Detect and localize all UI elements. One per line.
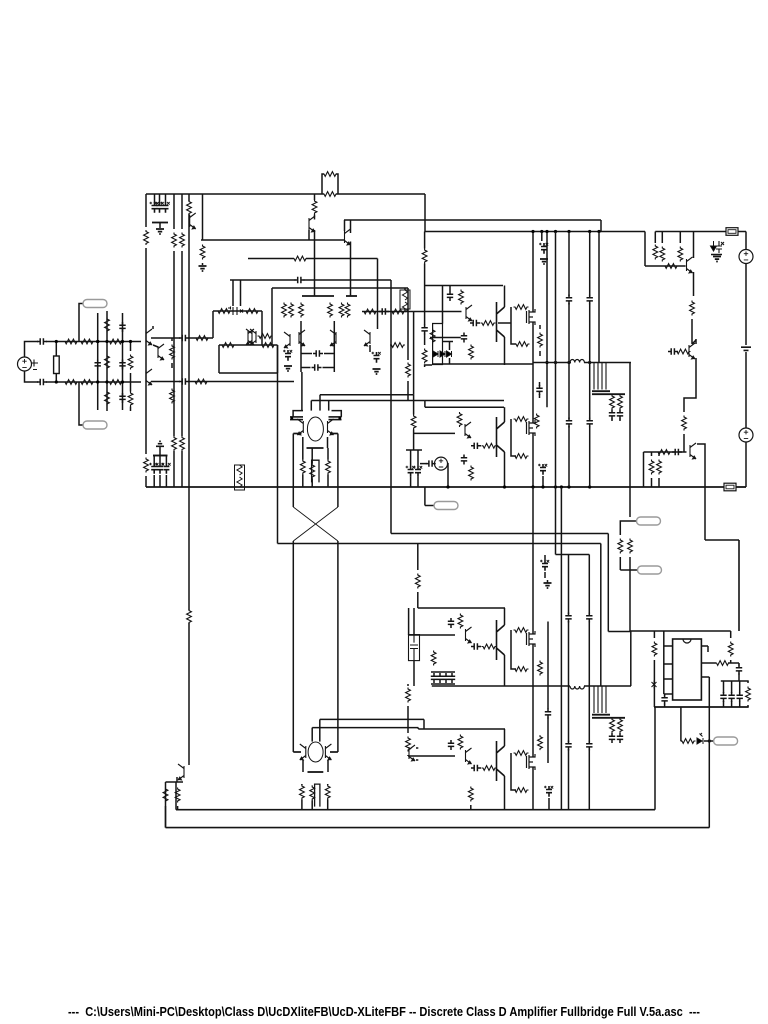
resistor R68 (657, 460, 662, 475)
resistor R80 (482, 766, 497, 771)
mosfet M2 (527, 420, 536, 436)
wire M3 drain (532, 622, 534, 635)
capacitor C6 (95, 360, 101, 370)
capacitor C25 (536, 385, 542, 395)
wire x408 bottom (407, 755, 409, 756)
resistor R58 zobel (618, 395, 623, 410)
resistor R69 (618, 539, 623, 554)
wire x548 rail (547, 622, 549, 710)
resistor R96 (310, 786, 315, 801)
resistor R47 (469, 345, 474, 360)
wire zobel bar 2 (592, 717, 625, 719)
transistor Q20 (690, 443, 696, 459)
resistor R74 gate (514, 628, 529, 633)
net flag OUT1 (630, 520, 636, 522)
transistor Q5 mirror (248, 329, 254, 345)
resistor R24 (245, 309, 260, 314)
resistor R102 in box (430, 329, 435, 344)
wire feed2 y635 (409, 634, 455, 636)
wire D5 stubs (449, 342, 451, 351)
capacitor C23 (470, 320, 480, 326)
transistor Q4 cascode (158, 344, 164, 360)
wire to flag (704, 740, 714, 742)
rail x555 lower half (555, 487, 557, 555)
ground G6 (713, 257, 721, 262)
rail x569 upper (568, 232, 570, 297)
wire cap drop x541 (541, 232, 543, 242)
resistor R93 (163, 788, 168, 803)
wire left rail x146 (145, 194, 147, 227)
wire x692 mid (691, 319, 693, 344)
resistor R67 (649, 460, 654, 475)
wire caps to bus (153, 475, 155, 487)
resistor R89 (715, 661, 730, 666)
wire jog up x213 (212, 311, 214, 338)
resistor R83 (468, 787, 473, 802)
wire to termination (46, 341, 61, 343)
IC rail top y631 (630, 630, 731, 632)
capacitor C61 polarized (408, 466, 414, 477)
transistor Q29 on y240 (345, 229, 351, 245)
capacitor C13 (295, 277, 305, 283)
wire right rail mid (745, 263, 747, 345)
resistor R35 (390, 343, 405, 348)
wire drop x442 (442, 286, 444, 324)
resistor R9 (200, 245, 205, 260)
capacitor C65 polarized (151, 463, 157, 474)
svg-text:--- C:\Users\Mini-PC\Desktop\: --- C:\Users\Mini-PC\Desktop\Class D\UcD… (68, 1004, 700, 1019)
wire R101 stubs (404, 288, 406, 290)
transistor Q11 input left (246, 329, 252, 345)
wire x408 chain (407, 684, 409, 686)
wire C20 loop (332, 411, 342, 417)
resistor R17 (105, 391, 110, 406)
junction dots switch1 (545, 361, 548, 364)
bootstrap cap C42 (437, 673, 443, 683)
resistor R14b (108, 380, 123, 385)
resistor R75 snubber (514, 667, 529, 672)
wire comp cap left (300, 321, 302, 372)
wire crossL end bar (293, 751, 301, 753)
wire top bus right (336, 193, 425, 195)
transistor Q7 diff left (299, 330, 305, 346)
wire x709 riser (708, 739, 711, 742)
wire crossover right top (337, 434, 339, 508)
resistor R100 top (314, 194, 316, 200)
wire collector bar right (330, 433, 338, 435)
wire y338 to jog (188, 337, 213, 339)
wire R tops (302, 448, 304, 460)
wire x643 to bus (643, 452, 645, 487)
wire bias row to Q14 base (414, 311, 462, 313)
wire y381 continues (188, 381, 294, 383)
bus E y533 (391, 533, 608, 535)
wire drop x202 top (202, 194, 204, 240)
resistor R57 zobel (610, 395, 615, 410)
wire bus C y231 (425, 231, 645, 233)
mosfet M1 (527, 309, 536, 325)
resistor R15 (105, 318, 110, 333)
wire x413 riser (413, 312, 415, 395)
capacitor C46 (448, 740, 454, 750)
resistor R29 load (299, 303, 304, 318)
wire base bar left (302, 295, 334, 297)
wire L1 to right (584, 362, 631, 364)
wire feed y433 (414, 432, 455, 434)
feedback row y741 (681, 740, 682, 742)
wire bottom left corner 2 (165, 782, 167, 828)
rail x569 mid (568, 303, 570, 419)
resistor R30c load (345, 303, 350, 318)
wire x630 drop from switch (629, 363, 631, 518)
wire input bottom lead (25, 371, 39, 382)
resistor R82 snubber (514, 788, 529, 793)
capacitor C33 (587, 295, 593, 305)
capacitor C27 (461, 455, 467, 465)
wire Rs to rail (301, 784, 303, 785)
resistor R50 (538, 333, 543, 348)
resistor R94 (175, 788, 180, 803)
resistor R48 gate (514, 305, 529, 310)
transistor Q6 mirror (250, 329, 256, 345)
diode D5 (447, 351, 452, 357)
wire drop x450 (449, 286, 451, 292)
resistor R33 (363, 309, 378, 314)
wire diff base left drop (314, 230, 316, 296)
resistor R91 (746, 687, 751, 702)
resistor R18b (128, 392, 133, 407)
ground bus y487 (146, 486, 724, 488)
resistor R85 (538, 735, 543, 750)
capacitor C35 zobel (609, 410, 615, 420)
resistor R30b load (339, 303, 344, 318)
wire x608 to IC rail (608, 631, 630, 633)
wire bus A to bus C drop (424, 194, 426, 232)
transistor Q16 (465, 422, 471, 438)
wire right rail to bottom bus (745, 442, 747, 488)
wire crossover left top (292, 434, 294, 508)
wire out line y381 (151, 381, 180, 383)
wire bar y455 (153, 455, 168, 457)
wire Q25 down (176, 777, 178, 782)
wire base drop right (328, 401, 330, 411)
wire x272 drop (271, 288, 273, 345)
wire x601 stub (600, 220, 602, 232)
resistor R71 feed (415, 574, 420, 589)
rail x599 (598, 232, 600, 363)
driver pair oval 1 (307, 417, 323, 441)
wire x311 stub (310, 401, 312, 411)
mosfet box M2 left side (511, 419, 516, 456)
wire R83 stub (470, 805, 472, 810)
wire M2 drain (532, 365, 534, 423)
transistor Q3 input pair bottom (146, 369, 152, 385)
wire y258 right (306, 258, 378, 260)
capacitor C39 (448, 618, 454, 628)
wire x548 top stub (547, 580, 549, 583)
wire M2 source (532, 433, 534, 487)
resistor R14 (80, 380, 95, 385)
transistor Q25 (178, 764, 184, 780)
rail2 x589 mid (588, 621, 590, 742)
wire R103 to bus (173, 451, 175, 487)
resistor R90 (728, 642, 733, 657)
resistor R20 emitter (170, 389, 175, 404)
resistor R8 (180, 233, 185, 248)
resistor R79 (458, 735, 463, 750)
resistor R95 (300, 785, 305, 800)
wire drop x182 (181, 194, 183, 229)
transistor Q8 diff right (330, 330, 336, 346)
wire x709 down (708, 677, 710, 828)
wire src to bus (447, 464, 450, 487)
driver rail y729 (418, 728, 505, 730)
wire pin stub 3 (664, 678, 673, 680)
capacitor C66 polarized (157, 463, 163, 474)
wire x408 drop (407, 288, 409, 360)
driver bottom rail y364 (432, 363, 533, 365)
wire driver pre-rail y400 (425, 400, 504, 402)
capacitor C12 polarized (228, 307, 243, 316)
resistor R27 (293, 256, 308, 261)
wire x424 to rail (424, 264, 426, 326)
wire left pin column (663, 631, 665, 694)
wire x408 drop (408, 608, 410, 635)
wire x608 drop to lower driver (607, 534, 609, 632)
wire y258 row (248, 258, 294, 260)
wire loop right (277, 345, 279, 373)
wire x631 stub (630, 631, 632, 686)
wire flag stub x424 (424, 487, 426, 506)
wire y727 left stub (311, 728, 313, 742)
resistor R64 (676, 349, 691, 354)
wire R pair bottoms (619, 557, 621, 570)
wire zobel bar (592, 393, 625, 395)
capacitor C62 polarized (415, 466, 421, 477)
capacitor C52 (586, 613, 592, 623)
wire T row y311 (213, 310, 262, 312)
resistor R51 (457, 412, 462, 427)
wire emitter bar (308, 771, 324, 773)
wire x182 long column (181, 251, 183, 436)
voltage source V4 (435, 457, 448, 470)
wire bias row y311 (362, 311, 414, 313)
transistor Q28 (409, 745, 415, 761)
resistor R25 (221, 343, 236, 348)
wire x320 stub (319, 395, 321, 411)
wire caps to bar (153, 456, 155, 464)
resistor R61 (678, 247, 683, 262)
resistor R6 mid rail (187, 609, 192, 624)
resistor R43 feed (424, 232, 426, 249)
wire Q29 collector (350, 220, 352, 233)
wire R104 to bus (181, 451, 183, 487)
mosfet M3 (527, 631, 536, 647)
ground G3 (284, 366, 292, 371)
ground flag inverted (156, 441, 164, 446)
rail x589 mid (589, 303, 591, 419)
wire caps tops (723, 681, 725, 693)
wire input rail bottom (61, 381, 141, 383)
capacitor C19 side (290, 416, 303, 418)
resistor R103 (172, 436, 177, 451)
wire caps bar (431, 671, 455, 673)
rail2 x589 upper (588, 555, 590, 615)
wire R50 leads (539, 325, 541, 329)
resistor R55 snubber (514, 454, 529, 459)
wire comp cap right (333, 321, 335, 372)
wire C56 leads (738, 663, 740, 666)
switch node 1 (533, 362, 571, 364)
resistor R34 (391, 309, 406, 314)
resistor R7 (172, 233, 177, 248)
wire x630 to IC rail (629, 570, 631, 631)
transistor Q23 (466, 748, 472, 764)
transistor Q14 (466, 305, 472, 321)
wire loop left (218, 345, 220, 373)
resistor R44 (422, 349, 427, 364)
resistor R99 hang (411, 415, 416, 430)
resistor R78 (406, 737, 411, 752)
wire Q24 emitter (504, 776, 506, 810)
capacitor C47 (471, 765, 481, 771)
wire y280 right (304, 279, 392, 281)
capacitor C15 comp (313, 350, 323, 356)
resistor R36 (258, 334, 273, 339)
driver rail y608 (418, 607, 505, 609)
wire R89 right (728, 662, 739, 664)
capacitor C53 (586, 741, 592, 751)
bottom rail 1 (176, 809, 655, 811)
wire emitter stubs (302, 437, 304, 448)
wire feed3 y756 (408, 755, 455, 757)
wire R19 leads (171, 338, 173, 341)
capacitor C31 (566, 295, 572, 305)
bottom rail 2 (166, 827, 710, 829)
wire C64 leads (544, 555, 546, 560)
capacitor C24 (461, 333, 467, 343)
diode D2 (440, 351, 445, 357)
capacitor C30 polarized (541, 243, 547, 254)
resistor R31 mirror (282, 303, 287, 318)
wire R99 leads (413, 395, 415, 415)
resistor R92 (681, 739, 696, 744)
wire R67 to bus (651, 478, 653, 487)
wire bottom left corner 1 (175, 782, 177, 810)
wire rail x277 down (277, 345, 279, 544)
capacitor C59 (737, 692, 743, 702)
junction dots bus ground (531, 485, 534, 488)
wire x739 stub (738, 677, 740, 681)
boxed resistor R101 (400, 290, 410, 309)
junction dots bus C (531, 230, 534, 233)
capacitor C14 tail (285, 350, 291, 361)
resistor R1 inline top bus (323, 192, 338, 197)
wire drop x680 (679, 232, 681, 244)
capacitor C11 series (179, 378, 189, 384)
wire bar y782 (166, 781, 184, 783)
wire crossover diagonal 2 (293, 507, 338, 541)
wire Q22 emitter (504, 655, 506, 686)
net flag IN- (79, 382, 83, 425)
resistor R21 (195, 336, 210, 341)
wire jog x620 (620, 521, 630, 535)
transistor Q22 driver (497, 620, 505, 660)
wire M4 source (532, 767, 534, 810)
wire bias line y240 (201, 239, 345, 241)
wire Q28 stub (416, 747, 418, 749)
wire Q30 links (314, 215, 316, 220)
wire Q17 collector (504, 407, 506, 422)
capacitor C40 (471, 643, 481, 649)
resistor R59 (653, 245, 658, 260)
wire right pin stub 1 (701, 645, 708, 647)
wire gnd to bar (159, 446, 161, 455)
driver rail top y285 (425, 285, 503, 287)
wire drive line y719 (320, 718, 424, 720)
capacitor C63 series (672, 449, 682, 455)
resistor R60 (660, 247, 665, 262)
capacitor C2 (157, 202, 163, 213)
rail x589 upper (589, 232, 591, 297)
wire Q17 emitter (504, 452, 506, 487)
capacitor C3 (163, 202, 169, 213)
capacitor C9 (119, 393, 125, 403)
wire Q18 collector (693, 232, 695, 259)
resistor R65 (682, 416, 687, 431)
wire y288 row (272, 287, 408, 289)
capacitor C60 (661, 695, 667, 705)
resistor R104 (180, 436, 185, 451)
wire mosfet source (532, 322, 534, 365)
wire ground bus right end (736, 486, 746, 488)
wire Q29 emitter (350, 242, 352, 297)
resistor R10 termination box (54, 356, 60, 374)
wire drop x645 corner (644, 232, 646, 267)
wire drop x655 (654, 232, 656, 244)
resistor R70 (628, 539, 633, 554)
wire x600 drop to lower driver (600, 544, 602, 687)
resistor R28 (406, 363, 411, 378)
ground G7 (544, 583, 552, 588)
wire crossover right rail down (337, 541, 339, 752)
wire fuse to right rail (738, 231, 746, 233)
wire driver collector (504, 286, 506, 308)
resistor R32 mirror (289, 303, 294, 318)
wire M3 source (532, 644, 534, 686)
switch node 2 (432, 685, 570, 687)
mosfet box M3 left (511, 630, 516, 669)
wire right pin stub 3 (701, 676, 709, 678)
wire x424 up from rail (424, 401, 426, 408)
output cap group 2 (594, 686, 606, 713)
wire cap bottom bar (152, 222, 168, 224)
capacitor C51 (565, 741, 571, 751)
resistor R88 (652, 642, 657, 657)
wire Q22 collector (504, 608, 506, 625)
wire input pair collectors (152, 326, 154, 329)
diode D1 (433, 351, 438, 357)
resistor R72 (458, 614, 463, 629)
ground G1 (156, 229, 164, 234)
wire y280 row (230, 279, 296, 281)
wire C49 stub (548, 798, 550, 810)
wire C28 to bus (542, 476, 544, 487)
resistor R2 boosted above bus (322, 174, 324, 194)
wire rail x189 (188, 194, 190, 201)
rail x555 (555, 232, 557, 488)
transistor Q13 (328, 419, 334, 435)
